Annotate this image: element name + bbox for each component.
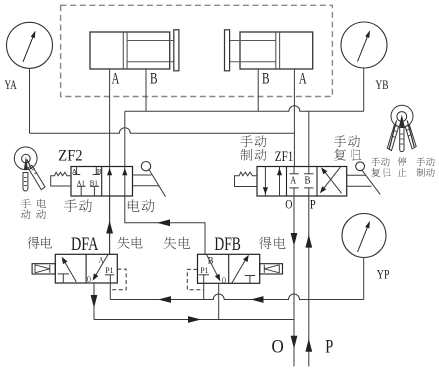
DFB pilot dashed box [187,269,204,289]
wire A-left column (cyl A to ZF2 to DFA) [109,69,111,254]
pressure gauge YP [342,214,386,258]
label shi-dian DFA [118,237,130,249]
valve DFA body [55,254,117,283]
wire YB drop to B bus [363,68,365,111]
wire YA drop [29,68,31,133]
label de-dian DFB [259,237,272,249]
label de-dian DFA [27,237,39,249]
DFA pilot dashed box [111,269,127,290]
DFB exhaust drop [218,283,220,319]
svg-text:A: A [299,70,307,87]
DFB solenoid [260,264,283,274]
selector switch left [14,147,37,170]
selector left labels [21,199,31,208]
label shou-dong fu-gui (reset) [334,135,346,147]
cylinder right body [240,32,313,69]
selector right labels [371,158,380,167]
cylinder left flange [174,30,179,71]
wire riser bus to ZF1 B [308,111,310,166]
DFA pilot drop [109,275,111,300]
wire B bus horizontal with hop [125,106,364,112]
cylinder right piston [275,32,277,69]
DFA left cell [64,260,77,282]
exhaust bus [94,319,294,321]
valve ZF2 body [71,167,133,197]
label shou-dong zhi-dong (brake) [240,135,252,147]
label shi-dian DFB [164,237,176,249]
label shou-dong below ZF2 [64,199,77,212]
svg-text:A1: A1 [77,178,85,187]
svg-text:YA: YA [5,77,18,92]
pressure gauge YA [7,22,53,68]
ZF1 spring [235,172,258,186]
DFA solenoid [32,264,55,274]
wire YA horizontal with hop [30,128,295,134]
pilot bus with hops [110,294,363,300]
ZF1 right cell crossed arrows [322,167,341,191]
svg-text:B: B [97,167,102,176]
svg-text:ZF1: ZF1 [275,149,294,165]
wire B-left drop [145,69,147,111]
ZF1 middle cell blocked ports [293,167,295,174]
label dian-dong below ZF2 [128,199,140,211]
wire A-right column (cyl A to ZF1) [293,69,295,167]
wire YP drop to pilot bus [363,258,365,300]
svg-text:B: B [150,70,158,87]
wire A1 to DFA with up arrow [109,196,111,254]
pressure gauge YB [341,22,387,68]
svg-text:O: O [285,198,292,212]
svg-text:O: O [87,274,91,284]
O line [293,196,295,366]
wire B1 to DFB [125,196,205,254]
svg-text:O: O [272,337,284,358]
svg-text:B: B [305,176,311,187]
dashed enclosure box [61,5,333,96]
svg-text:A: A [112,70,120,87]
wire B-right drop [257,69,259,111]
cylinder right rod [230,40,276,42]
DFB pilot drop [203,275,205,300]
svg-text:ZF2: ZF2 [58,147,82,164]
cylinder left body [90,32,170,69]
svg-text:P: P [310,198,316,212]
svg-text:O: O [222,275,226,285]
svg-text:P1: P1 [200,266,208,275]
ZF2 right cell flow arrows [107,168,112,175]
svg-text:B: B [262,70,270,87]
ZF2 left cell ports [76,167,78,175]
ZF2 spring [51,172,71,186]
svg-text:A: A [290,176,297,187]
cylinder left rod [127,40,174,42]
cylinder right flange [225,30,230,71]
svg-text:P1: P1 [105,266,113,275]
wire B column ZF2 [124,111,126,196]
ZF2 lever roller [133,174,152,176]
svg-text:YP: YP [377,267,390,282]
selector switch right [391,105,413,127]
DFA exhaust drop with arrow [93,283,95,320]
ZF1 left cell flow lines [264,167,266,197]
svg-text:B1: B1 [90,178,98,187]
ZF1 lever roller [347,174,366,176]
cylinder left piston [122,32,124,69]
svg-text:P: P [325,337,333,358]
P line [308,196,310,366]
svg-text:A: A [72,167,78,176]
svg-text:YB: YB [376,77,389,92]
valve ZF1 body [257,167,347,197]
svg-text:DFB: DFB [214,234,241,255]
valve DFB body [198,254,260,283]
DFB right cell [232,257,247,283]
svg-text:DFA: DFA [71,234,99,255]
